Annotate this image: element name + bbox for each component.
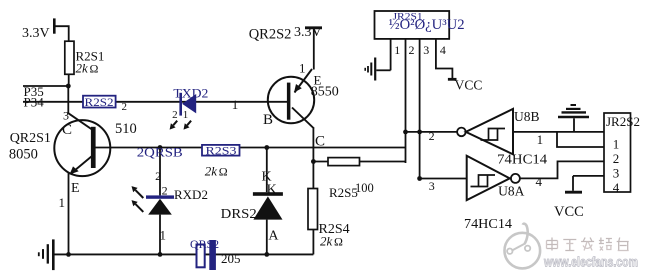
svg-text:½O²Ø¿U³U2: ½O²Ø¿U³U2: [389, 17, 465, 33]
svg-text:100: 100: [355, 181, 374, 195]
svg-text:2: 2: [155, 169, 161, 183]
svg-text:JR2S2: JR2S2: [606, 114, 640, 129]
svg-text:74HC14: 74HC14: [497, 152, 547, 167]
svg-text:2: 2: [122, 101, 128, 113]
svg-text:1: 1: [183, 109, 189, 121]
svg-text:K: K: [267, 183, 277, 198]
svg-text:1: 1: [232, 97, 239, 112]
svg-text:3: 3: [613, 166, 620, 181]
svg-text:www.elecfans.com: www.elecfans.com: [543, 255, 638, 270]
svg-text:1: 1: [613, 137, 620, 152]
svg-text:R2S3: R2S3: [206, 146, 237, 158]
svg-text:DRS2: DRS2: [221, 207, 257, 222]
svg-text:3: 3: [423, 43, 429, 57]
svg-text:Ω: Ω: [90, 62, 99, 76]
svg-text:4: 4: [613, 180, 620, 195]
svg-text:1: 1: [394, 43, 400, 57]
svg-text:R2S2: R2S2: [85, 97, 114, 109]
svg-text:TXD2: TXD2: [173, 86, 208, 101]
svg-text:2: 2: [613, 151, 620, 166]
svg-text:U8B: U8B: [514, 109, 540, 124]
svg-text:E: E: [71, 181, 80, 196]
svg-text:C: C: [62, 122, 72, 138]
svg-text:2: 2: [429, 129, 435, 143]
svg-text:2QRSB: 2QRSB: [137, 146, 183, 160]
svg-text:P34: P34: [24, 95, 45, 110]
svg-text:QR2S2: QR2S2: [249, 27, 292, 43]
svg-text:A: A: [268, 229, 279, 244]
svg-text:1: 1: [59, 195, 66, 210]
svg-text:4: 4: [440, 43, 446, 57]
svg-text:3: 3: [429, 179, 435, 193]
svg-text:3.3V: 3.3V: [294, 25, 322, 40]
svg-text:205: 205: [221, 251, 241, 266]
svg-text:QRS2: QRS2: [190, 239, 219, 251]
svg-text:1: 1: [160, 228, 167, 243]
svg-text:2k: 2k: [320, 234, 333, 249]
svg-text:8550: 8550: [311, 85, 339, 100]
svg-text:RXD2: RXD2: [174, 187, 208, 202]
svg-text:Ω: Ω: [219, 165, 228, 179]
svg-text:QR2S1: QR2S1: [10, 131, 51, 146]
svg-text:2: 2: [172, 109, 178, 121]
svg-text:Ω: Ω: [334, 235, 343, 249]
svg-text:R2S5: R2S5: [329, 185, 358, 200]
svg-text:510: 510: [115, 121, 137, 137]
svg-text:VCC: VCC: [554, 204, 584, 220]
svg-text:2: 2: [162, 184, 168, 198]
svg-text:2k: 2k: [205, 164, 218, 179]
svg-text:2k: 2k: [76, 61, 89, 76]
svg-text:74HC14: 74HC14: [464, 216, 512, 231]
svg-text:4: 4: [536, 174, 543, 189]
svg-text:8050: 8050: [9, 147, 38, 163]
svg-text:VCC: VCC: [455, 78, 483, 93]
svg-text:2: 2: [409, 43, 415, 57]
svg-text:C: C: [315, 134, 325, 150]
svg-text:3: 3: [63, 109, 69, 123]
svg-text:B: B: [263, 112, 273, 128]
svg-text:3.3V: 3.3V: [22, 26, 50, 41]
svg-text:1: 1: [537, 132, 544, 147]
svg-text:1: 1: [299, 61, 306, 76]
svg-text:U8A: U8A: [498, 184, 524, 199]
